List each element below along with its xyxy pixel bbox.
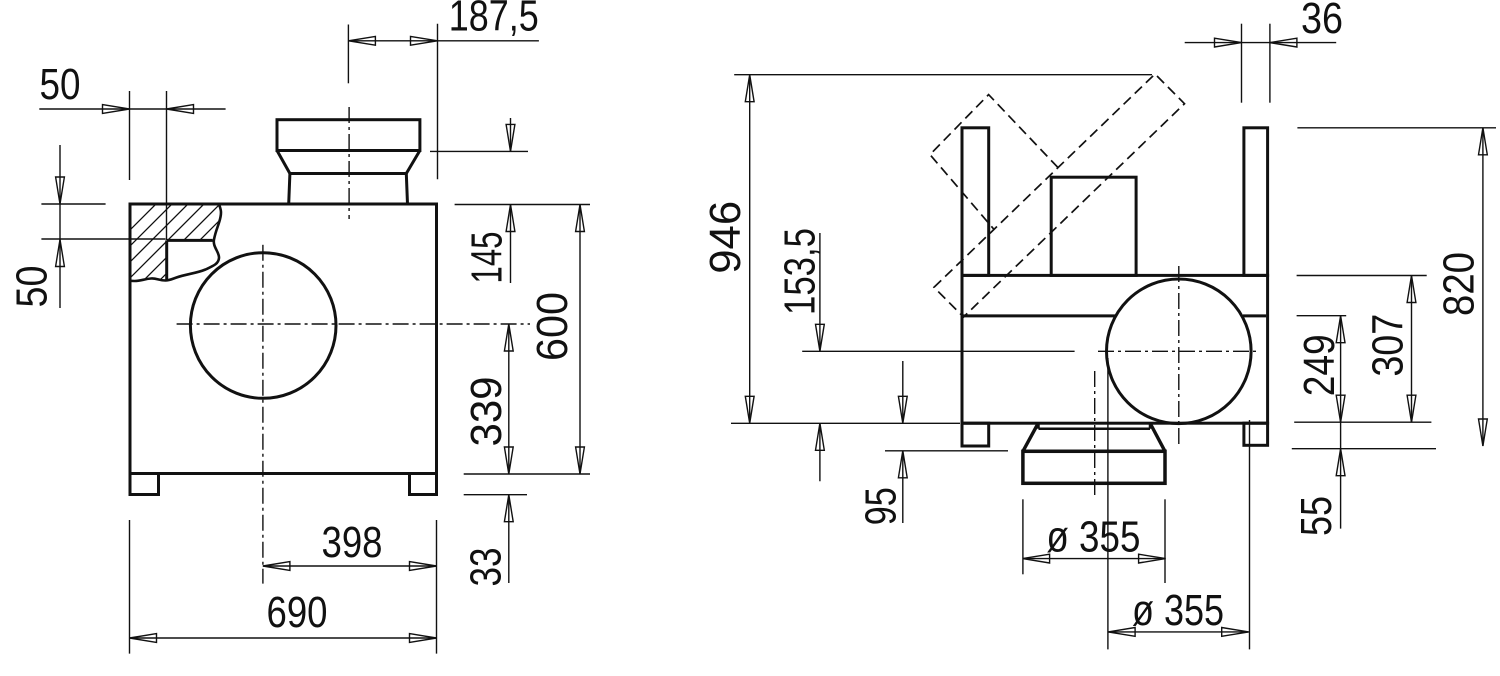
svg-text:153,5: 153,5: [776, 228, 825, 315]
dimension 249: [1297, 316, 1347, 423]
dimension 33: [464, 474, 590, 583]
left foot: [130, 474, 159, 495]
circle horizontal centerline: [177, 323, 530, 325]
dimension 50 left: [41, 145, 165, 308]
bottom flange neck: [1039, 424, 1151, 429]
svg-text:145: 145: [463, 232, 512, 284]
hatching (section): [110, 180, 292, 362]
svg-text:600: 600: [528, 292, 577, 361]
outlet duct flange: [277, 120, 420, 151]
dimension 690: [130, 520, 437, 654]
svg-text:ø 355: ø 355: [1046, 513, 1140, 562]
dimension 95: [885, 361, 1008, 523]
inlet circle: [190, 253, 336, 399]
svg-text:95: 95: [856, 487, 905, 525]
left foot (side): [962, 423, 989, 446]
break (wavy) line: [130, 204, 221, 281]
dimension 339: [504, 324, 513, 474]
wall step horizontal: [167, 239, 213, 242]
dimension 145: [430, 118, 590, 283]
right foot: [410, 474, 437, 495]
svg-text:36: 36: [1301, 0, 1343, 43]
right rail post: [1244, 128, 1268, 276]
right foot (side): [1244, 423, 1268, 445]
dimension 946: [731, 75, 1152, 424]
svg-text:249: 249: [1295, 334, 1344, 396]
dimension ø355 flange: [1023, 499, 1166, 583]
svg-text:398: 398: [322, 518, 383, 567]
svg-text:50: 50: [40, 60, 81, 109]
dimension 398: [263, 562, 437, 571]
svg-text:690: 690: [267, 588, 328, 637]
outlet duct neck: [289, 174, 408, 205]
svg-text:946: 946: [701, 201, 750, 274]
circle horizontal centerline: [802, 350, 1074, 352]
dimension 187,5: [348, 24, 539, 180]
dashed swung rail: [934, 74, 1185, 317]
dashed swung duct (diamond): [930, 95, 1058, 230]
svg-text:ø 355: ø 355: [1132, 586, 1224, 635]
duct centerline: [348, 107, 350, 219]
svg-text:820: 820: [1435, 252, 1484, 316]
dimension 600: [576, 205, 585, 475]
body: [962, 275, 1268, 423]
left rail post: [962, 128, 989, 276]
dimension 36: [1185, 24, 1337, 103]
duct (side): [1051, 177, 1136, 275]
svg-text:55: 55: [1292, 496, 1341, 536]
dimension 820: [1292, 128, 1496, 449]
svg-text:33: 33: [462, 548, 511, 587]
svg-text:50: 50: [8, 266, 57, 308]
dimension 153,5: [816, 233, 825, 481]
dimension 55: [1336, 422, 1345, 528]
wall step vertical: [165, 240, 168, 279]
dimension ø355 circle: [1108, 358, 1250, 649]
flange centerline: [1094, 371, 1096, 497]
outlet duct taper: [277, 151, 420, 174]
housing box: [130, 204, 437, 474]
svg-text:187,5: 187,5: [449, 0, 539, 41]
side port circle: [1107, 279, 1252, 424]
bottom flange rect: [1023, 451, 1165, 483]
circle vertical centerline: [1178, 266, 1180, 447]
circle vertical centerline: [262, 245, 264, 584]
dimension 50 top: [39, 91, 225, 240]
bottom flange taper: [1023, 425, 1165, 452]
svg-text:307: 307: [1364, 314, 1413, 377]
band line: [962, 314, 1266, 317]
dimension 307: [1294, 276, 1431, 423]
svg-text:339: 339: [462, 377, 511, 447]
